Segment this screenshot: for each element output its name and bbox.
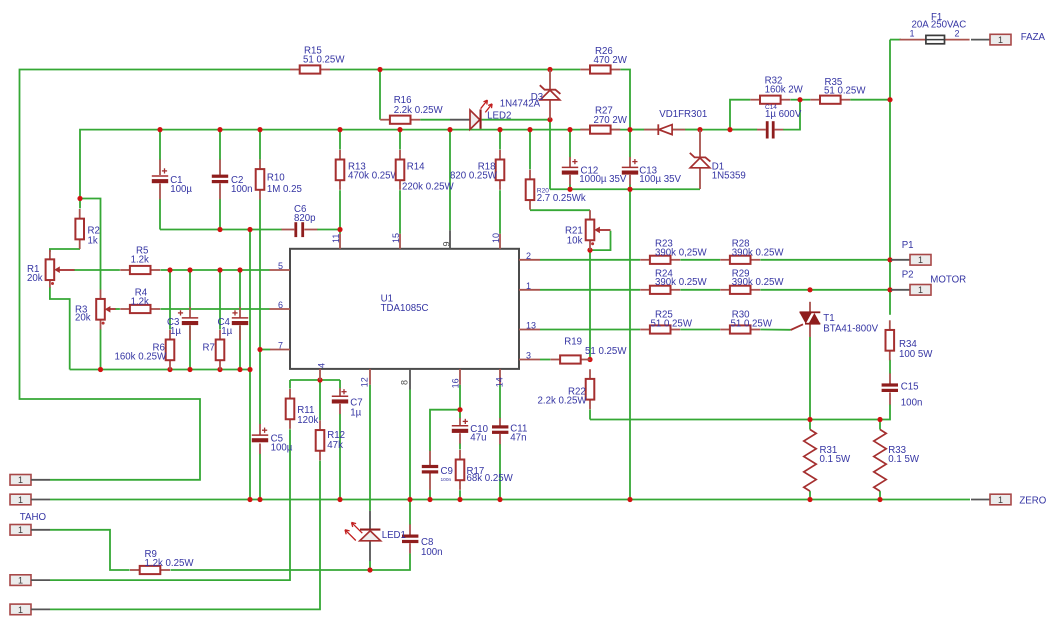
svg-text:1000µ 35V: 1000µ 35V xyxy=(579,174,627,185)
connector pad ZERO xyxy=(971,494,1047,507)
wire pin2 line xyxy=(540,259,640,261)
svg-text:1µ: 1µ xyxy=(350,408,361,419)
resistor R27 xyxy=(580,106,627,134)
svg-text:LED2: LED2 xyxy=(487,110,511,121)
svg-text:TAHO: TAHO xyxy=(20,512,47,523)
resistor R14 xyxy=(396,150,455,193)
wire pin3 to R19 xyxy=(540,359,550,361)
capacitor C14 xyxy=(757,104,802,139)
svg-text:R7: R7 xyxy=(203,343,215,354)
svg-text:1N4742A: 1N4742A xyxy=(500,99,541,110)
U1 pin 12 lead xyxy=(360,369,371,387)
resistor R12 xyxy=(316,420,345,460)
svg-text:2.2k 0.25W: 2.2k 0.25W xyxy=(394,105,444,116)
connector pad X1 (top left) xyxy=(10,475,50,486)
resistor R18 xyxy=(450,150,504,190)
capacitor C15 xyxy=(882,373,923,408)
wire pin8 to ZERO xyxy=(409,390,411,500)
wire LED1 cathode... anode bottom xyxy=(369,561,371,570)
resistor R17 xyxy=(456,450,514,490)
resistor R6 xyxy=(115,330,175,370)
svg-text:LED1: LED1 xyxy=(382,530,406,541)
svg-text:100µ: 100µ xyxy=(170,184,192,195)
wire C14 right to R32 node xyxy=(783,100,800,130)
resistor R19 xyxy=(550,337,627,364)
svg-text:2.7 0.25Wk: 2.7 0.25Wk xyxy=(537,193,586,204)
svg-text:51 0.25W: 51 0.25W xyxy=(303,55,345,66)
svg-text:160k 2W: 160k 2W xyxy=(765,85,804,96)
wire R3 wiper to R4 xyxy=(115,308,120,310)
svg-text:120k: 120k xyxy=(297,415,318,426)
svg-text:1M 0.25: 1M 0.25 xyxy=(267,184,302,195)
U1 pin 13 lead xyxy=(519,321,540,331)
capacitor C2 xyxy=(212,160,253,200)
U1 pin 14 lead xyxy=(495,369,505,387)
wire bus stub R10 xyxy=(259,130,261,160)
wire C5 bottom to ZERO xyxy=(259,454,261,500)
wire pin13 line xyxy=(540,329,640,331)
wire R6 top xyxy=(169,270,171,330)
wire C6 right to pin11 node xyxy=(317,229,340,231)
wire R33 bottom stub xyxy=(879,491,881,499)
wire T1 MT1 down xyxy=(809,337,811,420)
svg-text:2: 2 xyxy=(526,251,531,261)
svg-text:100n: 100n xyxy=(441,477,452,483)
wire R1 wiper to R5 xyxy=(74,269,120,271)
U1 pin 6 lead xyxy=(270,300,291,310)
wire R10 bottom long vertical xyxy=(259,199,261,424)
svg-text:ZERO: ZERO xyxy=(1019,496,1046,507)
svg-text:51 0.25W: 51 0.25W xyxy=(731,319,773,330)
wire bus189 horizontal xyxy=(550,188,700,190)
wire R7 top xyxy=(219,270,221,330)
fuse F1 xyxy=(900,12,970,44)
wire VD1 right green xyxy=(685,129,700,131)
wire F1 vertical xyxy=(889,40,891,260)
resistor R11 xyxy=(286,389,319,429)
wire R1 bottom corner xyxy=(50,287,70,370)
diode VD1 FR301 xyxy=(644,109,707,135)
wire node250 vertical mid xyxy=(249,230,251,370)
svg-text:390k 0.25W: 390k 0.25W xyxy=(732,277,785,288)
resistor R30 xyxy=(720,310,773,334)
svg-text:4: 4 xyxy=(317,363,327,368)
wire F1 lead left xyxy=(890,39,901,41)
wire R16 to LED2 anode xyxy=(420,119,450,121)
wire ZERO bus xyxy=(50,499,970,501)
svg-text:P2: P2 xyxy=(902,269,914,280)
svg-text:270 2W: 270 2W xyxy=(594,115,628,126)
svg-text:1: 1 xyxy=(18,525,23,535)
svg-text:390k 0.25W: 390k 0.25W xyxy=(732,247,785,258)
wire R12 bottom to pad5 line xyxy=(50,461,320,610)
U1 pin 5 lead xyxy=(270,261,291,271)
wire T1 node to P2 xyxy=(810,289,890,291)
svg-text:160k 0.25W: 160k 0.25W xyxy=(115,351,168,362)
wire P2 node down to R34 xyxy=(889,290,891,315)
svg-text:R19: R19 xyxy=(564,337,582,348)
wire R31 top stub xyxy=(809,420,811,430)
capacitor C1 xyxy=(152,160,193,200)
svg-text:FAZA: FAZA xyxy=(1021,32,1046,43)
svg-text:0.1 5W: 0.1 5W xyxy=(820,454,852,465)
zener diode D3 xyxy=(500,70,561,119)
svg-text:P1: P1 xyxy=(902,240,914,251)
svg-text:68k 0.25W: 68k 0.25W xyxy=(467,473,514,484)
wire main bus y129.6 xyxy=(80,130,757,199)
svg-text:7: 7 xyxy=(278,341,283,351)
resistor R15 xyxy=(290,46,345,74)
wire bus369 xyxy=(70,369,250,371)
wire R24 to R29 xyxy=(680,289,720,291)
zener diode D1 xyxy=(690,130,746,189)
wire P1 vertical segment xyxy=(889,260,891,290)
connector pad P2 MOTOR xyxy=(891,269,966,295)
svg-text:1µ: 1µ xyxy=(170,326,181,337)
potentiometer R3 xyxy=(75,290,116,330)
U1 pin 10 lead xyxy=(491,233,501,249)
svg-text:1: 1 xyxy=(18,605,23,615)
connector pad X2 (zero left) xyxy=(10,494,50,505)
wire bus stub pin9 xyxy=(449,130,451,231)
wire TAHO pad to R9 xyxy=(50,530,130,570)
capacitor C3 xyxy=(167,307,198,340)
wire bus229 C6 line xyxy=(160,229,282,231)
svg-text:100 5W: 100 5W xyxy=(899,349,933,360)
LED LED1 xyxy=(345,511,406,561)
capacitor C8 xyxy=(402,524,443,557)
wire R21 wiper loop xyxy=(591,231,611,250)
wire R26 right corner down to bus xyxy=(620,70,630,130)
wire R35 to node890 xyxy=(850,99,890,101)
svg-text:470 2W: 470 2W xyxy=(594,55,628,66)
wire bus stub R13 xyxy=(339,130,341,150)
resistor R13 xyxy=(336,150,401,190)
wire R25 to R30 xyxy=(680,329,720,331)
capacitor C6 xyxy=(282,204,318,237)
svg-text:390k 0.25W: 390k 0.25W xyxy=(655,277,708,288)
wire pin4 horizontal xyxy=(290,379,340,381)
potentiometer R1 xyxy=(27,250,75,288)
wire R23 to R28 xyxy=(680,259,720,261)
resistor R26 xyxy=(580,46,627,74)
svg-text:100n: 100n xyxy=(421,547,443,558)
wire C3 bottom xyxy=(189,325,191,369)
triac T1 BTA41-800V xyxy=(791,302,879,337)
resistor R29 xyxy=(720,269,784,294)
wire R13 bottom to pin11 xyxy=(339,190,341,234)
capacitor C4 xyxy=(218,307,249,340)
wire C14 left green xyxy=(730,129,757,131)
wire C1 bottom xyxy=(159,199,161,230)
svg-text:47n: 47n xyxy=(510,432,526,443)
svg-text:1: 1 xyxy=(18,495,23,505)
resistor R34 xyxy=(886,320,934,360)
svg-text:1µ 600V: 1µ 600V xyxy=(765,109,802,120)
U1 pin 4 lead xyxy=(317,363,327,380)
svg-text:10k: 10k xyxy=(567,236,583,247)
resistor R24 xyxy=(640,269,707,294)
svg-text:8: 8 xyxy=(400,380,410,385)
wire D3 anode node down through bus to 189-bus xyxy=(549,120,551,190)
wire pin4 left corner to R11 xyxy=(289,380,291,389)
resistor R22 xyxy=(538,369,595,409)
wire R14 bottom to pin15 xyxy=(399,190,401,234)
capacitor C10 xyxy=(452,418,489,444)
wire R5 to IC pin5 xyxy=(161,269,270,271)
potentiometer R21 xyxy=(565,210,611,250)
svg-text:15: 15 xyxy=(391,233,401,243)
resistor R23 xyxy=(640,239,707,264)
svg-text:47k: 47k xyxy=(327,440,343,451)
U1 pin 9 lead xyxy=(442,230,452,249)
svg-text:R10: R10 xyxy=(267,172,285,183)
resistor R16 xyxy=(380,95,443,124)
wire top-left loop net FAZA-R15 to pad1 xyxy=(20,70,291,480)
svg-text:13: 13 xyxy=(526,321,536,331)
wire R30 to gate xyxy=(760,329,790,331)
wire R26-C13 vertical xyxy=(629,130,631,158)
wire C3 top xyxy=(189,270,191,307)
svg-text:220k 0.25W: 220k 0.25W xyxy=(402,182,455,193)
svg-text:470k 0.25W: 470k 0.25W xyxy=(348,171,401,182)
wire pin16 down xyxy=(459,385,461,410)
wire bus stub R14 xyxy=(399,130,401,150)
wire C12 bottom to bus189 xyxy=(569,185,571,190)
svg-text:2.2k 0.25W: 2.2k 0.25W xyxy=(538,395,588,406)
wire VD1 left green xyxy=(630,129,644,131)
wire R18 bottom to pin10 xyxy=(499,190,501,234)
U1 pin 11 lead xyxy=(331,234,341,249)
svg-text:1µ: 1µ xyxy=(221,326,232,337)
wire R3 top corner xyxy=(80,199,101,290)
wire R31 bottom stub xyxy=(809,491,811,499)
svg-text:1: 1 xyxy=(918,255,923,265)
wire R22 bottom stub xyxy=(589,410,591,420)
U1 pin 3 lead xyxy=(519,351,540,361)
wire C13 bottom long vertical to ZERO xyxy=(629,185,631,500)
wire bus stub C2 xyxy=(219,130,221,160)
svg-text:6: 6 xyxy=(278,300,283,310)
svg-text:16: 16 xyxy=(451,378,461,388)
capacitor C12 xyxy=(562,157,627,185)
wire C4 top xyxy=(239,270,241,307)
svg-text:390k 0,25W: 390k 0,25W xyxy=(655,247,708,258)
capacitor C9 xyxy=(422,451,453,490)
connector pad TAHO xyxy=(10,512,50,535)
svg-text:VD1FR301: VD1FR301 xyxy=(659,109,707,120)
resistor R7 xyxy=(203,330,225,370)
wire node800 to R35 xyxy=(800,99,810,101)
svg-text:100n: 100n xyxy=(901,398,923,409)
connector pad FAZA xyxy=(971,32,1046,45)
svg-text:100µ: 100µ xyxy=(271,443,293,454)
wire pin4 node to R12 xyxy=(319,380,321,420)
U1 pin 15 lead xyxy=(391,233,401,249)
svg-text:820 0.25W: 820 0.25W xyxy=(450,171,498,182)
wire C10 to R17 xyxy=(459,443,461,449)
svg-text:12: 12 xyxy=(360,377,370,387)
U1 pin 2 lead xyxy=(519,251,540,261)
resistor R2 xyxy=(75,209,99,249)
resistor R5 xyxy=(120,246,160,275)
svg-text:10: 10 xyxy=(491,233,501,243)
wire C4 bottom xyxy=(239,325,241,369)
wire pin12 to LED1 xyxy=(369,385,371,511)
wire pin1 line xyxy=(540,289,640,291)
svg-text:1: 1 xyxy=(910,28,915,38)
resistor R31 (zigzag) xyxy=(804,430,851,492)
svg-text:5: 5 xyxy=(278,261,283,271)
capacitor C5 xyxy=(252,424,293,454)
svg-text:1: 1 xyxy=(18,576,23,586)
capacitor C11 xyxy=(492,418,527,444)
svg-text:1.2k 0.25W: 1.2k 0.25W xyxy=(145,558,195,569)
svg-text:14: 14 xyxy=(495,377,505,387)
wire R21 node down to R19 node xyxy=(589,250,591,359)
svg-text:100n: 100n xyxy=(231,184,253,195)
wire R28 to P1 xyxy=(760,259,890,261)
wire R4 to IC pin6 xyxy=(161,308,270,310)
svg-text:TDA1085C: TDA1085C xyxy=(381,303,429,314)
wire bus stub R20 xyxy=(529,130,531,170)
svg-text:51 0.25W: 51 0.25W xyxy=(824,86,866,97)
svg-text:1: 1 xyxy=(526,281,531,291)
svg-text:1: 1 xyxy=(918,285,923,295)
wire pin7 stub xyxy=(260,349,270,351)
resistor R32 xyxy=(750,76,803,104)
wire C2 bottom xyxy=(219,199,221,230)
resistor R25 xyxy=(640,310,693,334)
svg-text:2: 2 xyxy=(955,28,960,38)
wire node250 vertical low xyxy=(249,370,251,500)
svg-text:100µ 35V: 100µ 35V xyxy=(639,174,681,185)
wire C7 bottom to ZERO xyxy=(339,414,341,500)
svg-text:1: 1 xyxy=(998,35,1003,45)
svg-text:1k: 1k xyxy=(88,236,98,247)
U1 pin 7 lead xyxy=(270,341,290,351)
U1 pin 8 lead xyxy=(400,369,411,390)
svg-text:C15: C15 xyxy=(901,381,919,392)
wire R11 bottom to pad4 line xyxy=(50,429,290,580)
svg-text:BTA41-800V: BTA41-800V xyxy=(823,323,878,334)
svg-text:3: 3 xyxy=(526,351,531,361)
wire bus stub R18 xyxy=(499,130,501,150)
svg-text:47u: 47u xyxy=(470,432,486,443)
wire C11 bottom xyxy=(499,444,501,500)
svg-text:MOTOR: MOTOR xyxy=(930,274,966,285)
resistor R4 xyxy=(120,288,160,314)
wire R29 to T1 node xyxy=(760,289,810,291)
resistor R20 xyxy=(526,170,586,210)
svg-text:1N5359: 1N5359 xyxy=(712,171,746,182)
resistor R9 xyxy=(130,549,194,574)
svg-text:51 0.25W: 51 0.25W xyxy=(651,319,693,330)
wire node460 branch to C9 xyxy=(430,410,460,451)
svg-text:C9: C9 xyxy=(441,466,453,477)
wire R3 bottom xyxy=(100,329,102,369)
wire pin14 down xyxy=(499,385,501,419)
connector pad P1 xyxy=(891,240,931,265)
wire bus stub C1 xyxy=(159,130,161,160)
svg-text:0.1 5W: 0.1 5W xyxy=(888,454,920,465)
wire R20 bottom corner to R21 xyxy=(530,209,590,211)
U1 pin 1 lead xyxy=(519,281,540,291)
wire LED2 cathode to node550 xyxy=(482,119,550,121)
wire R2 top stub xyxy=(79,199,81,209)
wire C15 bottom corner xyxy=(590,404,890,419)
wire R15 to node at x380 xyxy=(330,69,380,71)
capacitor C7 xyxy=(332,388,363,418)
wire bus stub C12 xyxy=(569,130,571,158)
wire R32 line left corner xyxy=(730,100,750,130)
svg-text:9: 9 xyxy=(442,241,452,246)
wire R2 bottom corner to R1 xyxy=(50,249,80,252)
wire node380 to node550 top xyxy=(380,69,550,71)
wire node550 to R26 xyxy=(550,69,580,71)
wire node380 down to R16 xyxy=(379,70,381,120)
resistor R10 xyxy=(256,159,302,199)
connector pad X4 xyxy=(10,575,50,586)
svg-text:20k: 20k xyxy=(27,273,43,284)
U1 pin 16 lead xyxy=(451,369,461,389)
wire R17 bottom xyxy=(459,490,461,499)
resistor R35 xyxy=(810,77,866,104)
svg-text:20k: 20k xyxy=(75,312,91,323)
svg-text:1: 1 xyxy=(998,495,1003,505)
wire C7 top corner xyxy=(339,380,341,388)
svg-text:51 0.25W: 51 0.25W xyxy=(585,346,627,357)
wire C8 bottom corner to TAHO line xyxy=(171,553,411,570)
resistor R33 (zigzag) xyxy=(874,430,920,492)
svg-text:R14: R14 xyxy=(407,162,425,173)
svg-text:1.2k: 1.2k xyxy=(131,254,149,265)
svg-text:820p: 820p xyxy=(294,213,316,224)
resistor R28 xyxy=(720,239,784,264)
wire R34 to C15 xyxy=(889,360,891,374)
capacitor C13 xyxy=(622,157,682,185)
svg-text:1: 1 xyxy=(18,475,23,485)
wire C8 top xyxy=(409,500,411,525)
wire R33 top stub xyxy=(879,420,881,430)
svg-text:11: 11 xyxy=(331,234,341,243)
svg-text:1.2k: 1.2k xyxy=(131,296,149,307)
op-amp U1 TDA1085C body xyxy=(290,249,519,369)
connector pad X5 xyxy=(10,604,50,615)
wire C10 top stub xyxy=(459,410,461,419)
LED LED2 xyxy=(450,100,511,129)
wire R32 to node800 xyxy=(791,99,801,101)
wire C9 bottom xyxy=(429,490,431,500)
